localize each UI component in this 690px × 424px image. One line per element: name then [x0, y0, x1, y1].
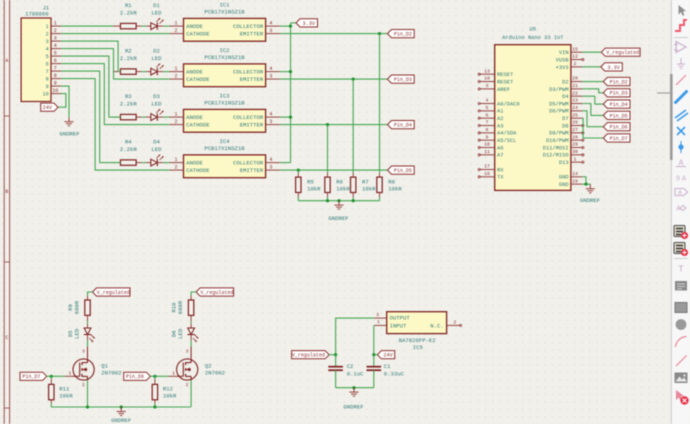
svg-text:8: 8	[54, 73, 57, 79]
svg-text:GNDREF: GNDREF	[343, 404, 363, 411]
wire J1 pin9 to GNDREF	[61, 86, 69, 117]
svg-text:PCB17X1NSZ1B: PCB17X1NSZ1B	[204, 145, 245, 152]
wire IC2 collector	[280, 71, 291, 73]
wire J1 pin10 to 24V	[58, 94, 66, 108]
svg-text:0.1uC: 0.1uC	[347, 370, 364, 377]
svg-text:2: 2	[54, 28, 57, 34]
wire IC3 collector	[280, 116, 291, 118]
wire Pin_D6 to Q2 gate	[150, 375, 168, 377]
svg-text:6: 6	[46, 62, 49, 68]
svg-text:A1: A1	[497, 109, 503, 115]
sheet border frame	[3, 0, 5, 424]
wire 3.3V vertical bus	[290, 23, 292, 163]
svg-text:IC3: IC3	[219, 93, 229, 100]
svg-text:ANODE: ANODE	[186, 69, 203, 76]
svg-text:D5/PWM: D5/PWM	[549, 101, 568, 107]
IC U5 Arduino Nano 33 IoT	[495, 25, 571, 190]
svg-text:CATHODE: CATHODE	[186, 122, 210, 129]
svg-text:10kR: 10kR	[388, 186, 402, 193]
svg-text:R7: R7	[362, 179, 369, 186]
transistor Q2 2N7002	[168, 347, 225, 388]
svg-text:2: 2	[82, 382, 85, 388]
svg-text:COLLECTOR: COLLECTOR	[233, 23, 264, 30]
svg-text:2: 2	[174, 165, 177, 171]
wire U5 Pin_D7	[582, 118, 603, 138]
svg-text:3: 3	[186, 349, 189, 355]
svg-text:29: 29	[572, 142, 578, 148]
svg-text:1: 1	[174, 157, 177, 163]
global label V_regulated at IC5	[292, 351, 330, 359]
svg-text:3: 3	[269, 119, 272, 125]
wire J1 pin7 to R4	[61, 71, 121, 163]
svg-text:D13: D13	[559, 160, 569, 166]
toolbar icon arc tool	[676, 337, 687, 348]
svg-text:11: 11	[484, 149, 490, 155]
global label Pin_D2	[388, 30, 415, 38]
svg-text:2.2kR: 2.2kR	[120, 55, 137, 62]
wire IC emitter row Pin_D2	[280, 33, 388, 35]
svg-text:ANODE: ANODE	[186, 114, 203, 121]
U5 pin 1 D13	[559, 156, 584, 166]
svg-text:LED: LED	[151, 101, 162, 108]
wire R3 to D3	[142, 116, 147, 118]
wire J1 pin1 to R1	[61, 25, 113, 27]
ground GNDREF at IC5	[343, 388, 363, 411]
U5 pin 6 A2	[478, 112, 503, 122]
svg-text:3: 3	[82, 349, 85, 355]
svg-text:EMITTER: EMITTER	[240, 76, 264, 83]
svg-text:28: 28	[572, 134, 578, 140]
svg-text:N.C.: N.C.	[430, 323, 443, 330]
svg-text:5: 5	[54, 51, 57, 57]
svg-text:1: 1	[46, 24, 49, 30]
LED D3	[146, 93, 164, 121]
svg-text:OUTPUT: OUTPUT	[390, 315, 411, 322]
LED D2	[146, 48, 164, 76]
svg-text:4: 4	[269, 21, 272, 27]
U5 pin 11 A7	[478, 149, 503, 159]
svg-text:A0/DAC0: A0/DAC0	[497, 101, 520, 107]
svg-text:IC1: IC1	[219, 2, 230, 9]
wire R4 to D4	[142, 162, 147, 164]
svg-text:EMITTER: EMITTER	[240, 167, 264, 174]
svg-text:D2: D2	[562, 79, 568, 85]
svg-text:10: 10	[52, 88, 58, 94]
scrollbar thumb	[670, 74, 673, 160]
svg-text:10kR: 10kR	[59, 392, 73, 399]
toolbar icon global label tool	[675, 189, 688, 196]
svg-text:24V: 24V	[383, 353, 393, 359]
svg-text:1: 1	[69, 371, 72, 377]
svg-text:COLLECTOR: COLLECTOR	[233, 69, 264, 76]
capacitor C1 0.33uC	[367, 355, 405, 388]
U5 pin 8 A4/SDA	[478, 127, 517, 137]
svg-text:2.2kR: 2.2kR	[120, 146, 137, 153]
U5 pin 29 D11/MOSI	[543, 142, 584, 152]
wire R12 to rail	[154, 400, 156, 404]
svg-text:3: 3	[376, 312, 379, 318]
U5 pin 17 RX	[478, 164, 504, 174]
svg-text:7: 7	[46, 69, 49, 75]
wire V_regulated to R10	[191, 292, 196, 296]
wire J1 pin5 to R3	[61, 56, 121, 117]
svg-text:A: A	[5, 58, 8, 64]
U5 pin 22 D4	[562, 90, 582, 100]
junction IC1 collector	[289, 25, 292, 28]
ground GNDREF at U5	[580, 184, 600, 204]
svg-text:LED: LED	[151, 10, 162, 17]
junction R12 rail	[153, 405, 156, 408]
svg-text:9: 9	[46, 84, 49, 90]
svg-text:3.3V: 3.3V	[303, 21, 316, 27]
svg-text:10: 10	[42, 92, 48, 98]
global label Pin_D7 at U5	[603, 134, 630, 142]
svg-text:2: 2	[46, 32, 49, 38]
svg-text:D1: D1	[153, 2, 160, 9]
svg-text:5: 5	[486, 105, 489, 111]
global label V_regulated at U5	[601, 48, 640, 56]
svg-text:4: 4	[269, 112, 272, 118]
U5 pin 20 D2	[562, 76, 582, 86]
svg-text:A4/SDA: A4/SDA	[497, 131, 517, 137]
wire J1 pin2 to IC1 cathode	[61, 33, 169, 35]
capacitor C2 0.1uC	[328, 355, 364, 388]
svg-text:LED: LED	[151, 55, 162, 62]
U5 pin 25 D7	[562, 112, 582, 122]
svg-text:LED: LED	[177, 328, 184, 339]
power tag V_regulated at Q2	[196, 288, 234, 296]
wire Pin_D7 to Q1 gate	[47, 375, 65, 377]
svg-text:10kR: 10kR	[163, 392, 177, 399]
wire R8 vertical	[379, 34, 381, 173]
junction IC2 collector	[289, 70, 292, 73]
svg-text:A6: A6	[497, 145, 503, 151]
wire U5 GND14	[582, 177, 586, 184]
transistor Q1 2N7002	[65, 347, 122, 388]
svg-text:24: 24	[572, 105, 578, 111]
global label Pin_D6 at U5	[603, 123, 630, 131]
svg-text:2N7002: 2N7002	[205, 370, 225, 377]
wire R11 to rail	[50, 400, 52, 404]
svg-text:R2: R2	[125, 48, 132, 55]
resistor R1 2.2kR	[113, 2, 142, 29]
wire U5 VIN to V_regulated	[582, 51, 601, 53]
canvas scrollbar divider	[670, 0, 672, 424]
svg-text:2: 2	[174, 119, 177, 125]
U5 pin 2 +3V3	[556, 61, 583, 71]
svg-text:Q1: Q1	[101, 363, 108, 370]
svg-text:0.33uC: 0.33uC	[384, 370, 405, 377]
wire R5 vertical	[297, 170, 299, 173]
junction Pin_D3 resistor tap	[352, 78, 355, 81]
svg-text:COLLECTOR: COLLECTOR	[233, 160, 264, 167]
svg-text:Pin_D7: Pin_D7	[22, 374, 40, 380]
global label Pin_D6	[124, 372, 151, 380]
svg-text:2: 2	[174, 28, 177, 34]
global label Pin_D3 at U5	[603, 89, 630, 97]
U5 pin 28 D10/PWM	[546, 134, 584, 144]
svg-text:15: 15	[572, 46, 578, 52]
junction Q rail ground tap	[120, 405, 123, 408]
svg-text:10: 10	[484, 142, 490, 148]
toolbar icon no connect tool	[677, 127, 685, 135]
svg-text:T: T	[678, 264, 684, 275]
U5 pin 9 A5/SCL	[478, 134, 516, 144]
svg-text:12: 12	[572, 54, 578, 60]
svg-text:8: 8	[46, 77, 49, 83]
wire U5 Pin_D4	[582, 96, 603, 104]
svg-text:22: 22	[572, 90, 578, 96]
ground GNDREF at Q rail	[111, 407, 131, 424]
wire U5 Pin_D6	[582, 111, 603, 127]
wire D6 to Q2 drain	[190, 335, 192, 341]
U5 pin 7 A3	[478, 120, 503, 130]
U5 pin 19 GND	[559, 178, 582, 188]
svg-text:CATHODE: CATHODE	[186, 31, 210, 38]
svg-text:3: 3	[46, 39, 49, 45]
IC5 pin 2 N.C. stub	[447, 320, 462, 327]
svg-text:1: 1	[174, 21, 177, 27]
svg-text:EMITTER: EMITTER	[240, 31, 264, 38]
svg-text:3: 3	[269, 28, 272, 34]
svg-text:A2: A2	[497, 116, 503, 122]
connector J1 1788660	[21, 4, 61, 101]
svg-text:10kR: 10kR	[307, 186, 321, 193]
svg-text:VIN: VIN	[559, 50, 569, 56]
svg-text:R11: R11	[59, 385, 70, 392]
U5 pin 12 VUSB	[556, 54, 584, 64]
wire U5 Pin_D2	[582, 81, 603, 83]
svg-text:2: 2	[574, 61, 577, 67]
junction C1 top	[372, 353, 375, 356]
svg-text:9: 9	[676, 176, 680, 184]
svg-text:C2: C2	[347, 363, 354, 370]
toolbar icon circle tool	[676, 319, 687, 330]
svg-text:D4: D4	[562, 94, 568, 100]
wire Q1 source	[87, 380, 89, 407]
U5 pin 26 D8	[562, 120, 584, 130]
svg-text:D2: D2	[153, 48, 160, 55]
svg-text:ANODE: ANODE	[186, 160, 203, 167]
wire to 3.3V tag	[291, 22, 297, 24]
wire R10 to D6	[190, 315, 192, 321]
toolbar icon hierarchical sheet tool	[674, 226, 685, 237]
svg-text:1: 1	[54, 21, 57, 27]
svg-text:7: 7	[486, 120, 489, 126]
svg-text:16: 16	[484, 171, 490, 177]
svg-text:21: 21	[572, 83, 578, 89]
svg-text:C: C	[5, 335, 8, 341]
wire D4 to IC4	[163, 162, 169, 164]
svg-text:2: 2	[174, 74, 177, 80]
svg-text:EMITTER: EMITTER	[240, 122, 264, 129]
junction R7 rail	[352, 199, 355, 202]
svg-text:2: 2	[186, 382, 189, 388]
svg-text:GNDREF: GNDREF	[328, 215, 348, 222]
svg-text:PCB17X1NSZ1B: PCB17X1NSZ1B	[204, 9, 245, 16]
svg-text:R8: R8	[388, 179, 395, 186]
svg-text:10kR: 10kR	[336, 186, 350, 193]
svg-text:Pin_D5: Pin_D5	[394, 168, 412, 174]
svg-text:3: 3	[269, 74, 272, 80]
svg-text:+3V3: +3V3	[556, 65, 569, 71]
wire IC emitter row Pin_D5	[280, 169, 388, 171]
resistor R10 680R	[171, 300, 194, 315]
ground GNDREF at J1	[59, 117, 79, 137]
wire R7 vertical	[352, 79, 354, 173]
svg-text:C1: C1	[384, 363, 391, 370]
svg-text:V_regulated: V_regulated	[200, 290, 233, 296]
svg-text:RESET: RESET	[497, 72, 514, 78]
LED D1	[146, 2, 164, 30]
U5 pin 18 RESET	[478, 76, 514, 86]
optocoupler IC2 PCB17X1NSZ1B	[169, 47, 280, 87]
junction C2 top	[334, 353, 337, 356]
junction rail ground	[352, 386, 355, 389]
U5 pin 3 AREF	[478, 83, 510, 93]
U5 pin 5 A1	[478, 105, 503, 115]
svg-text:Pin_D3: Pin_D3	[394, 77, 412, 83]
toolbar icon import sheet pin tool	[674, 243, 685, 254]
svg-text:PCB17X1NSZ1B: PCB17X1NSZ1B	[204, 100, 245, 107]
U5 pin 21 D3/PWM	[549, 83, 582, 93]
svg-text:D3/PWM: D3/PWM	[549, 87, 568, 93]
svg-text:4: 4	[269, 66, 272, 72]
optocoupler IC1 PCB17X1NSZ1B	[169, 2, 280, 42]
resistor R11 10kR	[49, 376, 74, 400]
toolbar icon text box tool	[675, 281, 687, 291]
svg-text:D8: D8	[562, 123, 568, 129]
svg-text:5: 5	[46, 54, 49, 60]
svg-text:9: 9	[54, 81, 57, 87]
svg-text:Arduino Nano 33 IoT: Arduino Nano 33 IoT	[502, 35, 564, 41]
resistor R3 2.2kR	[113, 93, 142, 120]
junction rail ground tap	[337, 199, 340, 202]
junction Pin_D5 resistor tap	[297, 169, 300, 172]
svg-text:R6: R6	[336, 179, 343, 186]
svg-text:9: 9	[486, 134, 489, 140]
svg-text:IC5: IC5	[413, 344, 423, 351]
wire U5 GND19	[582, 183, 590, 185]
junction Pin_D2 resistor tap	[378, 32, 381, 35]
wire IC4 collector	[280, 162, 291, 164]
junction IC3 collector	[289, 116, 292, 119]
toolbar separator 2	[674, 258, 688, 260]
global label Pin_D3	[388, 75, 415, 83]
resistor R2 2.2kR	[113, 48, 142, 75]
svg-text:4: 4	[486, 98, 489, 104]
svg-text:1: 1	[172, 371, 175, 377]
svg-text:RESET: RESET	[497, 79, 514, 85]
toolbar icon highlight line	[676, 75, 686, 85]
svg-text:Pin_D6: Pin_D6	[610, 125, 628, 131]
resistor R5 10kR	[296, 173, 322, 201]
wire D5 to Q1 drain	[87, 335, 89, 341]
wire IC emitter row Pin_D3	[280, 78, 388, 80]
svg-text:3: 3	[486, 83, 489, 89]
IC5 pin 3 OUTPUT stub	[374, 312, 387, 318]
wire R9 to D5	[87, 315, 89, 321]
svg-text:LED: LED	[74, 328, 81, 339]
svg-text:ANODE: ANODE	[186, 23, 203, 30]
junction U5 GND	[584, 183, 587, 186]
svg-text:Pin_D6: Pin_D6	[126, 374, 144, 380]
svg-text:23: 23	[572, 98, 578, 104]
U5 pin 16 TX	[478, 171, 504, 181]
LED D5	[67, 328, 95, 342]
global label Pin_D4 at U5	[603, 100, 630, 108]
svg-text:17: 17	[484, 164, 490, 170]
svg-text:1788660: 1788660	[25, 10, 49, 17]
svg-text:V_regulated: V_regulated	[606, 50, 639, 56]
svg-text:U5: U5	[529, 25, 536, 32]
wire pulldown ground rail	[298, 200, 379, 202]
svg-text:Pin_D2: Pin_D2	[610, 79, 628, 85]
svg-text:1: 1	[174, 66, 177, 72]
wire U5 +3V3 to 3.3V	[582, 66, 601, 68]
U5 pin 23 D5/PWM	[549, 98, 582, 108]
junction Pin_D4 resistor tap	[326, 123, 329, 126]
svg-text:680R: 680R	[74, 300, 81, 314]
toolbar icon rectangle tool	[675, 303, 687, 313]
wire J1 pin8 to IC4 cathode	[61, 79, 169, 171]
toolbar background	[672, 0, 690, 424]
LED D6	[171, 328, 199, 342]
svg-text:30: 30	[572, 149, 578, 155]
svg-text:2N7002: 2N7002	[101, 370, 121, 377]
global label Pin_D5	[388, 166, 415, 174]
svg-text:25: 25	[572, 112, 578, 118]
wire R1 to D1	[142, 25, 147, 27]
svg-text:GND: GND	[559, 182, 569, 188]
toolbar icon cursor arrow	[679, 5, 687, 16]
global label Pin_D5 at U5	[603, 111, 630, 119]
svg-text:680R: 680R	[177, 300, 184, 314]
svg-text:1: 1	[377, 319, 380, 325]
wire R6 vertical	[327, 125, 329, 173]
optocoupler IC3 PCB17X1NSZ1B	[169, 93, 280, 133]
svg-text:R1: R1	[125, 2, 132, 9]
power tag 24V at IC5	[377, 351, 394, 359]
svg-text:7: 7	[54, 66, 57, 72]
toolbar icon highlight net	[675, 20, 687, 31]
svg-text:1: 1	[574, 156, 577, 162]
svg-text:Pin_D2: Pin_D2	[394, 32, 412, 38]
toolbar icon image tool	[675, 373, 688, 384]
svg-text:AREF: AREF	[497, 87, 510, 93]
svg-text:Pin_D5: Pin_D5	[610, 113, 628, 119]
svg-text:27: 27	[572, 127, 578, 133]
svg-text:R5: R5	[307, 179, 314, 186]
wire J1 pin4 to IC2 cathode	[61, 49, 169, 80]
resistor R12 10kR	[152, 376, 177, 400]
svg-text:R4: R4	[125, 139, 132, 146]
svg-text:2: 2	[453, 320, 456, 326]
wire V_regulated to C2 junction	[329, 354, 336, 356]
svg-text:Pin_D4: Pin_D4	[610, 102, 628, 108]
wire U5 Pin_D5	[582, 104, 603, 116]
svg-text:IC4: IC4	[219, 138, 230, 145]
U5 pin 14 GND	[559, 171, 582, 181]
svg-text:D7: D7	[562, 116, 568, 122]
wire IC1 collector to 3.3V	[280, 25, 291, 27]
svg-text:Pin_D3: Pin_D3	[610, 91, 628, 97]
wire J1 pin3 to R2	[61, 41, 121, 72]
svg-text:14: 14	[572, 171, 578, 177]
wire R2 to D2	[142, 71, 147, 73]
power tag 24V at J1	[41, 103, 58, 111]
svg-text:B: B	[5, 189, 8, 195]
